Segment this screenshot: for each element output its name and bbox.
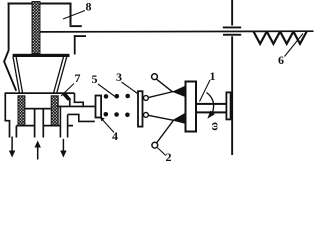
hatched rod column [32,2,40,54]
hatched block left [18,96,25,126]
shaft bottom line [197,111,226,113]
svg-text:1: 1 [210,69,216,83]
pipe step top [74,102,84,104]
svg-text:3: 3 [116,70,122,84]
lower assembly top line [5,92,75,94]
leader 4 with arrowhead [100,117,114,133]
dots row bottom [104,112,130,117]
leader 8 [63,11,85,20]
electromagnet rect 4 [96,96,102,118]
suspension line [40,30,314,33]
svg-text:7: 7 [75,71,81,85]
assembly right wall [74,93,76,103]
hanger rod upper [231,0,233,26]
leader 6 [285,34,304,57]
sawtooth teeth 6 [254,32,307,44]
funnel left wall [13,57,23,94]
leader 5 [98,84,115,97]
tube3 right wall [67,115,69,138]
link bottom circle to lower node [157,120,174,143]
lower node triangle [172,113,185,124]
bracket stub [69,99,71,107]
funnel right wall [53,57,66,94]
box 8 right wall upper [70,3,72,26]
funnel top edge [13,54,70,57]
omega rotation arrow [207,93,214,113]
hatched block right [51,96,58,126]
leader 1 [200,80,211,102]
eccentric circle top [152,74,158,80]
pipe main line [57,106,95,108]
svg-text:5: 5 [92,72,98,86]
shaft top line [197,103,226,105]
arrow up middle [35,141,41,160]
chamber gate line [25,108,52,110]
svg-text:8: 8 [86,0,92,13]
box 8 left wall with strut [4,3,16,91]
leader 7 [61,84,74,97]
hinge circle lower [144,113,149,118]
box 8 right wall lower [74,35,76,54]
link upper hinge to upper node [148,92,173,98]
svg-text:2: 2 [166,150,172,161]
eccentric circle bottom [152,142,158,148]
armature bar 3 [138,91,143,126]
pipe lower line [68,114,95,121]
link lower hinge to lower node [148,115,173,120]
pipe step down [82,102,84,108]
vibrator body 1 [186,82,197,132]
hinge circle upper [144,96,149,101]
box 8 top edge [8,3,72,5]
arrow down left [9,137,15,158]
leader 2 [157,148,165,156]
svg-text:6: 6 [278,53,284,67]
assembly outline left [5,93,73,138]
leader 3 [122,82,138,94]
svg-text:ω: ω [207,122,221,131]
hanger rod lower [231,36,233,155]
upper node triangle [172,86,185,97]
tube3 left wall [60,107,62,138]
hanger bar lower [223,34,241,36]
box 8 lower lip [74,35,86,37]
dots row top [104,94,130,99]
bearing rect [226,92,230,119]
arrow down right [60,139,66,158]
link top circle to upper node [156,79,173,92]
funnel-to-rod bracket [61,93,72,101]
hanger bar upper [223,27,241,29]
box 8 upper lip [70,25,82,27]
